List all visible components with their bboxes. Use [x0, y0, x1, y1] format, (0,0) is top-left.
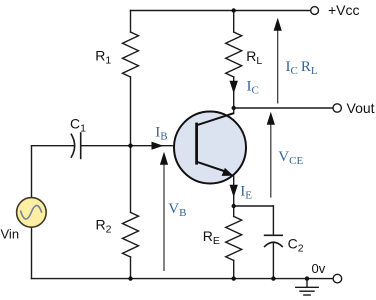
wire RL bottom lead / collector feed — [233, 77, 235, 108]
terminal 0v — [333, 274, 342, 283]
node R2 bottom junction — [128, 276, 132, 280]
wire emitter vertical — [233, 176, 235, 206]
terminal +Vcc — [311, 7, 319, 15]
svg-text:0v: 0v — [312, 261, 326, 276]
node collector top junction — [232, 8, 236, 12]
wire RE top lead — [233, 206, 235, 216]
wire left vertical lower — [31, 227, 33, 278]
resistor R1 — [123, 32, 139, 77]
arrow IE (emitter current) — [230, 185, 238, 198]
wire collector stub — [233, 108, 235, 114]
resistor RL — [226, 32, 242, 77]
transistor Q1 collector line — [197, 113, 234, 125]
arrow VB — [160, 152, 168, 271]
terminal Vout — [333, 104, 341, 112]
wire top rail — [131, 10, 311, 12]
wire R1 bottom lead — [130, 77, 132, 146]
transistor Q1 emitter arrowhead — [222, 168, 234, 176]
transistor Q1 base bar — [195, 123, 198, 165]
wire R1 top lead — [130, 11, 132, 33]
wire RE bottom lead — [233, 261, 235, 279]
svg-text:Vin: Vin — [1, 227, 20, 242]
wire R2 top lead — [130, 146, 132, 213]
node C2 bottom junction — [271, 276, 275, 280]
ground — [296, 279, 318, 295]
svg-text:+Vcc: +Vcc — [328, 2, 360, 18]
node base junction — [128, 144, 132, 148]
node ground junction — [305, 276, 309, 280]
wire C2 bottom lead — [272, 242, 274, 278]
arrow IB (base current) — [152, 142, 164, 150]
resistor RE — [226, 216, 242, 260]
svg-text:Vout: Vout — [347, 100, 375, 116]
wire emitter node to C2 — [234, 205, 274, 207]
wire R2 bottom lead — [130, 257, 132, 279]
wire Vout horizontal — [234, 107, 333, 109]
wire base horizontal left — [32, 145, 74, 147]
arrow VCE — [267, 112, 275, 198]
wire base horizontal right — [81, 145, 197, 147]
resistor R2 — [123, 212, 139, 257]
capacitor C1 — [71, 133, 80, 158]
capacitor C2 — [265, 235, 283, 246]
node Vout junction — [232, 106, 236, 110]
wire C2 top lead — [272, 206, 274, 235]
transistor Q1 emitter line — [197, 162, 227, 172]
wire left vertical upper — [31, 146, 33, 198]
arrow ICRL (voltage across RL) — [274, 18, 282, 104]
transistor Q1 body — [174, 112, 246, 184]
wire bottom rail — [32, 278, 333, 280]
wire RL top lead — [233, 11, 235, 33]
source Vin — [17, 198, 47, 228]
node RE bottom junction — [232, 276, 236, 280]
arrow IC (collector current) — [230, 81, 238, 94]
node emitter junction — [232, 204, 236, 208]
